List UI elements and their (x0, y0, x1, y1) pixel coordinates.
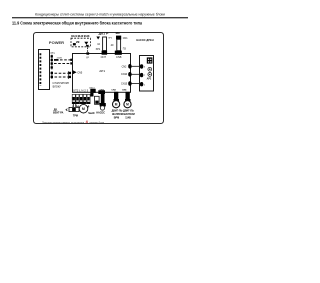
wire display to PCB (dashed with arrows) (86, 45, 89, 48)
svg-text:П3: П3 (123, 48, 127, 51)
wire PCB to pump 3 (131, 83, 141, 85)
svg-text:11.9 Схема электрическая общая: 11.9 Схема электрическая общая внутренне… (12, 21, 143, 26)
XP1 pin 2 (51, 59, 53, 61)
svg-text:НАСОС: НАСОС (96, 112, 105, 115)
svg-text:CN4: CN4 (122, 88, 127, 91)
svg-text:Пунктиром показаны элементы, н: Пунктиром показаны элементы, не входящие… (42, 121, 84, 125)
svg-text:CN8: CN8 (116, 55, 122, 59)
pin CN11 on PCB (128, 81, 131, 86)
header rule (12, 17, 188, 18)
svg-text:XT1: XT1 (50, 53, 55, 55)
connector bracket XP1 (51, 55, 53, 70)
svg-text:POWER: POWER (49, 41, 65, 45)
arrow into CN5 (73, 70, 77, 74)
svg-text:CN7: CN7 (101, 55, 107, 59)
XT1 inner pin strip (39, 53, 41, 86)
pin CN16 (70, 62, 72, 64)
wire PCB to pump 1 (131, 65, 141, 67)
display unit dashed box (71, 38, 90, 47)
CN8 blob (115, 51, 122, 55)
terminal strip XT2 (72, 94, 91, 108)
display element (73, 43, 76, 45)
comm wire 1 (dashed) (55, 72, 68, 74)
pump motor M2 (100, 106, 104, 110)
svg-text:M: M (115, 103, 118, 107)
capacitor C1 (95, 96, 100, 104)
svg-text:CN15: CN15 (121, 83, 128, 86)
wire L (dashed) (54, 59, 59, 61)
svg-text:CN10: CN10 (121, 73, 128, 76)
svg-text:БЛОКУ: БЛОКУ (53, 86, 62, 89)
XP1 pin 3 (51, 62, 53, 64)
svg-text:M: M (82, 107, 85, 111)
svg-text:XT2 L N 2 3: XT2 L N 2 3 (73, 89, 89, 92)
CN5 pin 2 (69, 76, 71, 78)
IR receiver D1 (84, 42, 88, 45)
svg-text:ТРМ: ТРМ (73, 115, 78, 118)
wire into M1 (66, 109, 68, 111)
svg-text:10: 10 (97, 43, 100, 46)
svg-text:КН2: КН2 (78, 34, 84, 38)
svg-text:AP1: AP1 (99, 69, 105, 73)
pump pin 7 (140, 73, 143, 77)
jumper element XP3 (96, 37, 100, 40)
pin CN10 on PCB (128, 72, 131, 77)
svg-text:CN1: CN1 (123, 37, 128, 40)
float switch symbol (148, 67, 152, 71)
svg-text:M: M (126, 103, 129, 107)
svg-text:CN5: CN5 (77, 72, 82, 75)
svg-text:XP1: XP1 (96, 48, 101, 51)
svg-text:40: 40 (111, 44, 114, 47)
svg-text:АР2: АР2 (147, 78, 152, 81)
comm wire 2 (dashed) (55, 76, 68, 78)
swing motor M3 (113, 101, 120, 108)
main PCB AP1 (73, 54, 131, 93)
svg-text:114В: 114В (125, 116, 131, 119)
pump pin 3 (140, 64, 143, 68)
CN7 blob (102, 51, 108, 55)
svg-text:CN3: CN3 (111, 89, 116, 91)
swing motor M4 (124, 101, 131, 108)
svg-text:К НАРУЖНОМУ: К НАРУЖНОМУ (53, 82, 70, 85)
water pump box (140, 56, 154, 92)
XP2 pin 1 (51, 72, 53, 74)
pump pin 2 (140, 82, 143, 86)
svg-text:Д01 Р: Д01 Р (99, 32, 109, 36)
pump connector plug (147, 57, 153, 63)
svg-text:Кондиционеры сплит-системы сер: Кондиционеры сплит-системы серии U-match… (35, 13, 165, 17)
svg-text:КН3: КН3 (84, 34, 90, 38)
svg-text:комплект блока: комплект блока (90, 121, 105, 125)
svg-text:КН1: КН1 (71, 34, 77, 38)
bracket at CN5 (67, 71, 69, 79)
wire PCB to pump 2 (131, 73, 141, 75)
svg-text:ВЕНТ-РА: ВЕНТ-РА (53, 111, 64, 114)
wire N (dashed) (54, 63, 71, 65)
terminal box XT1 (39, 50, 50, 90)
XP2 pin 2 (51, 76, 53, 78)
svg-text:5мкФ: 5мкФ (88, 112, 94, 115)
XP1 pin 4 (51, 66, 53, 68)
svg-text:CN2: CN2 (122, 65, 127, 68)
connector bracket XP2 (51, 71, 53, 79)
CN blob below PCB at x92 (90, 89, 95, 93)
pin CN2 on PCB (128, 64, 131, 69)
fan motor M1 (79, 104, 88, 113)
svg-text:ИК: ИК (76, 40, 80, 44)
svg-text:XP2: XP2 (108, 38, 113, 40)
XP1 pin 1 (51, 55, 53, 57)
ribbon CN3 (114, 92, 118, 100)
pump motor symbol (148, 73, 152, 77)
ribbon CN4 (126, 92, 130, 100)
pin CN17 (70, 59, 72, 61)
svg-text:НАСОС ДРЕН: НАСОС ДРЕН (136, 38, 154, 42)
schematic frame (34, 33, 164, 124)
svg-text:ВРМ: ВРМ (114, 116, 119, 119)
CN5 pin 1 (69, 72, 71, 74)
